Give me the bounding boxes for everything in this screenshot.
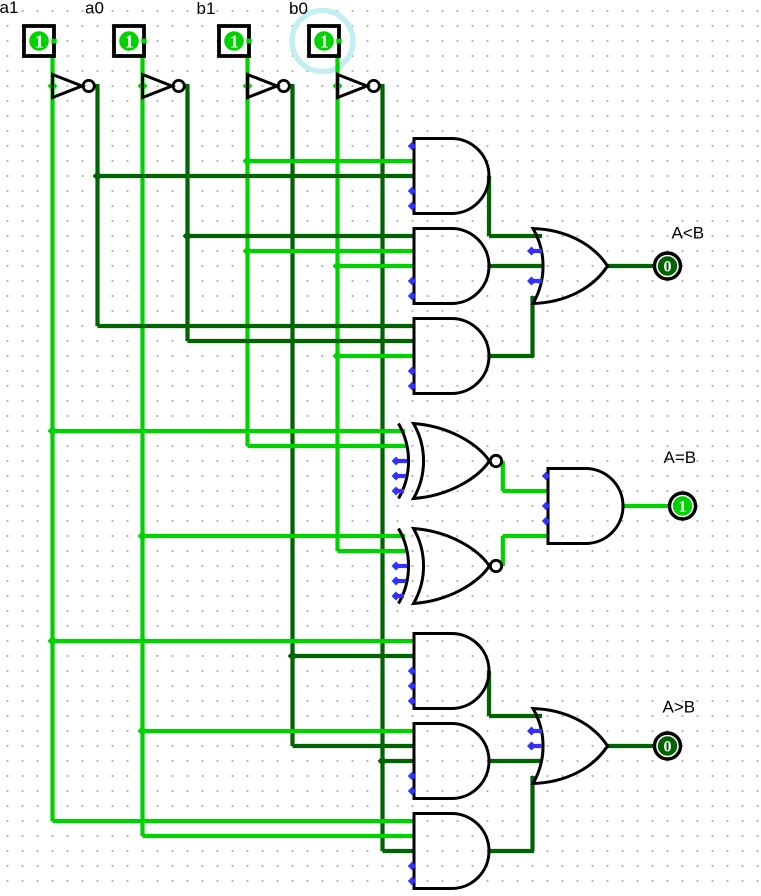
svg-text:1: 1: [679, 499, 687, 516]
svg-text:A>B: A>B: [663, 698, 696, 717]
svg-text:b1: b1: [197, 0, 216, 18]
svg-text:A=B: A=B: [664, 448, 697, 467]
svg-text:0: 0: [664, 739, 672, 756]
svg-text:1: 1: [230, 31, 239, 51]
svg-text:1: 1: [35, 31, 44, 51]
svg-text:1: 1: [320, 31, 329, 51]
svg-text:a0: a0: [85, 0, 104, 18]
svg-text:1: 1: [125, 31, 134, 51]
svg-text:b0: b0: [289, 0, 308, 18]
svg-text:0: 0: [664, 259, 672, 276]
svg-text:A<B: A<B: [672, 224, 705, 243]
svg-text:a1: a1: [0, 0, 18, 17]
